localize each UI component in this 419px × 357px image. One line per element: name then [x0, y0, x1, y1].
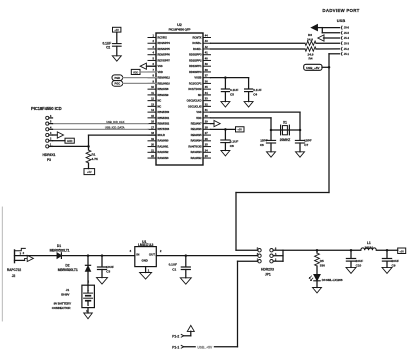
- svg-text:JP1: JP1: [265, 272, 271, 276]
- svg-text:PGD: PGD: [114, 76, 120, 80]
- svg-text:RA5/AN4: RA5/AN4: [191, 139, 202, 143]
- svg-text:RE0/AN5: RE0/AN5: [191, 133, 202, 137]
- svg-text:C9: C9: [392, 264, 396, 268]
- svg-text:RD3/SPP3: RD3/SPP3: [189, 53, 202, 57]
- svg-text:R1: R1: [92, 152, 96, 156]
- svg-text:VSS: VSS: [158, 64, 163, 68]
- svg-text:LM1117-3.3: LM1117-3.3: [138, 243, 153, 247]
- svg-text:MBR0520LT1: MBR0520LT1: [50, 248, 70, 252]
- svg-text:HDR2X3: HDR2X3: [261, 268, 274, 272]
- svg-text:OSC1/CLKI: OSC1/CLKI: [188, 104, 202, 108]
- svg-text:10UH: 10UH: [364, 246, 373, 250]
- svg-text:0.1UF: 0.1UF: [230, 88, 239, 92]
- svg-text:RA2/AN2: RA2/AN2: [191, 156, 202, 160]
- svg-text:15PF: 15PF: [260, 139, 268, 143]
- svg-text:RC4/D-: RC4/D-: [193, 47, 202, 51]
- svg-text:J5-3: J5-3: [344, 41, 350, 45]
- svg-text:VDD: VDD: [158, 70, 164, 74]
- svg-text:RB5/KBI1: RB5/KBI1: [158, 116, 170, 120]
- svg-text:RC6/TX: RC6/TX: [192, 35, 201, 39]
- svg-text:D3 SML-LX1206: D3 SML-LX1206: [322, 278, 343, 282]
- svg-text:VDD: VDD: [133, 71, 138, 74]
- svg-text:RD1/SPP1: RD1/SPP1: [189, 64, 202, 68]
- svg-text:VUSB: VUSB: [194, 76, 201, 80]
- svg-text:D2: D2: [65, 263, 69, 267]
- svg-text:R5: R5: [320, 259, 324, 263]
- svg-text:+5V: +5V: [87, 170, 92, 174]
- svg-text:RC2/CCP1: RC2/CCP1: [189, 81, 202, 85]
- svg-text:RA4/T0CKI: RA4/T0CKI: [188, 144, 201, 148]
- svg-text:RC1/T1OSI: RC1/T1OSI: [188, 87, 201, 91]
- svg-text:BH9V: BH9V: [61, 293, 70, 297]
- svg-text:MCLR: MCLR: [158, 133, 166, 137]
- svg-text:PIC18F4550 ICD: PIC18F4550 ICD: [31, 106, 62, 111]
- svg-text:20MHZ: 20MHZ: [280, 138, 291, 142]
- svg-text:RB7/KBI3: RB7/KBI3: [158, 127, 170, 131]
- svg-text:RB6/KBI2: RB6/KBI2: [158, 122, 170, 126]
- svg-text:IN: IN: [136, 252, 139, 256]
- svg-text:+: +: [87, 288, 89, 292]
- svg-text:RD4/SPP4: RD4/SPP4: [158, 41, 171, 45]
- svg-text:RD7/SPP7: RD7/SPP7: [158, 58, 171, 62]
- svg-text:RE2/AN7: RE2/AN7: [191, 122, 202, 126]
- svg-text:DADVIEW PORT: DADVIEW PORT: [322, 8, 359, 13]
- svg-text:RA0/AN0: RA0/AN0: [158, 139, 169, 143]
- svg-text:P1-1: P1-1: [172, 346, 179, 350]
- svg-text:RB3/AN9: RB3/AN9: [158, 93, 169, 97]
- svg-text:GND: GND: [67, 140, 73, 143]
- svg-text:NC: NC: [158, 99, 162, 103]
- svg-text:J1: J1: [66, 288, 70, 292]
- svg-text:L1: L1: [367, 241, 371, 245]
- svg-text:VDD: VDD: [196, 116, 202, 120]
- svg-text:J2: J2: [12, 274, 16, 278]
- svg-text:330: 330: [320, 264, 325, 268]
- svg-text:0.1UF: 0.1UF: [253, 88, 262, 92]
- svg-text:PGC: PGC: [114, 82, 120, 86]
- svg-text:15PF: 15PF: [304, 139, 312, 143]
- svg-text:RB0/AN12: RB0/AN12: [158, 76, 171, 80]
- svg-text:C4: C4: [253, 92, 257, 96]
- svg-text:RA3/AN3: RA3/AN3: [158, 156, 169, 160]
- svg-text:RAPC722: RAPC722: [7, 268, 22, 272]
- svg-text:VSS: VSS: [196, 110, 201, 114]
- svg-text:USB_ICD_CLK: USB_ICD_CLK: [106, 120, 124, 124]
- svg-text:C5: C5: [230, 92, 234, 96]
- svg-text:RD2/SPP2: RD2/SPP2: [189, 58, 202, 62]
- svg-text:OSC2/CLKO: OSC2/CLKO: [187, 99, 202, 103]
- svg-text:10UF: 10UF: [356, 259, 364, 263]
- svg-text:X1: X1: [283, 120, 287, 124]
- svg-text:+5V: +5V: [399, 250, 404, 253]
- svg-text:OUT: OUT: [149, 252, 155, 256]
- svg-text:USB_+5V: USB_+5V: [197, 345, 213, 349]
- svg-text:RD0/SPP0: RD0/SPP0: [189, 70, 202, 74]
- svg-text:P1-2: P1-2: [172, 335, 179, 339]
- svg-text:MBR0520LT1: MBR0520LT1: [58, 268, 78, 272]
- svg-text:4.7K: 4.7K: [92, 157, 99, 161]
- svg-text:RA2/AN2: RA2/AN2: [158, 150, 169, 154]
- svg-text:HDR6X1: HDR6X1: [42, 153, 55, 157]
- svg-text:U2: U2: [177, 23, 182, 27]
- svg-text:CONNECTOR: CONNECTOR: [52, 306, 71, 310]
- svg-text:RC7/RX: RC7/RX: [158, 35, 168, 39]
- svg-text:+5V: +5V: [237, 129, 242, 132]
- svg-text:J5-4: J5-4: [344, 36, 350, 40]
- svg-text:GND: GND: [141, 259, 147, 263]
- svg-text:RB2/AN8: RB2/AN8: [158, 87, 169, 91]
- svg-text:RA3/AN3: RA3/AN3: [191, 150, 202, 154]
- svg-text:RC5/D+: RC5/D+: [192, 41, 202, 45]
- svg-text:0.1UF: 0.1UF: [169, 263, 178, 267]
- svg-text:USB_+5V: USB_+5V: [306, 66, 319, 70]
- svg-text:C6: C6: [260, 143, 264, 147]
- svg-text:USB_ICD_DATA: USB_ICD_DATA: [105, 126, 125, 130]
- svg-text:C8: C8: [230, 144, 234, 148]
- svg-text:R4: R4: [309, 57, 313, 61]
- svg-text:J5-5: J5-5: [344, 31, 350, 35]
- svg-text:J5-1: J5-1: [344, 52, 350, 56]
- svg-text:10UF: 10UF: [106, 265, 114, 269]
- svg-text:0.1UF: 0.1UF: [230, 140, 239, 144]
- svg-text:C10: C10: [356, 264, 362, 268]
- svg-text:J5-6: J5-6: [344, 26, 350, 30]
- svg-text:24.9: 24.9: [307, 37, 313, 41]
- svg-text:RA1/AN1: RA1/AN1: [158, 144, 169, 148]
- svg-text:RB1/AN10: RB1/AN10: [158, 81, 171, 85]
- svg-text:C7: C7: [304, 143, 308, 147]
- svg-text:P3: P3: [47, 158, 51, 162]
- svg-text:RD5/SPP5: RD5/SPP5: [158, 47, 171, 51]
- svg-text:C1: C1: [172, 267, 176, 271]
- svg-text:NC: NC: [158, 104, 162, 108]
- svg-text:RD6/SPP6: RD6/SPP6: [158, 53, 171, 57]
- svg-text:USB: USB: [337, 18, 346, 23]
- svg-text:RE1/AN6: RE1/AN6: [191, 127, 202, 131]
- svg-text:PIC18F4550 QFP: PIC18F4550 QFP: [169, 27, 191, 31]
- svg-text:10UF: 10UF: [392, 259, 400, 263]
- svg-text:C3: C3: [106, 270, 110, 274]
- svg-text:C2: C2: [106, 46, 110, 50]
- svg-text:NC: NC: [198, 93, 202, 97]
- svg-text:J5-2: J5-2: [344, 47, 350, 51]
- svg-text:RB4/KBI0: RB4/KBI0: [158, 110, 170, 114]
